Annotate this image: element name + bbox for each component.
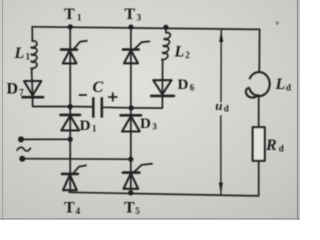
svg-text:5: 5 xyxy=(135,206,140,216)
svg-text:L: L xyxy=(14,45,25,62)
svg-text:3: 3 xyxy=(152,122,157,132)
inductor L1 xyxy=(31,41,37,69)
svg-text:L: L xyxy=(275,76,286,93)
wire L2 to D6 xyxy=(161,65,163,96)
label D3 xyxy=(140,116,157,132)
diode D6 xyxy=(151,80,174,96)
page border left xyxy=(2,0,4,220)
svg-text:D: D xyxy=(178,77,189,93)
diode D7 xyxy=(23,81,43,97)
label D6 xyxy=(178,77,195,93)
svg-text:D: D xyxy=(7,81,19,98)
inductor Ld xyxy=(246,72,270,98)
wire right side upper xyxy=(258,29,260,71)
junction node B xyxy=(129,105,134,110)
wire ac line 1 xyxy=(21,138,70,140)
junction L2 top xyxy=(163,25,168,30)
svg-text:T: T xyxy=(64,6,75,23)
svg-text:d: d xyxy=(279,144,284,154)
label T4 xyxy=(64,200,81,217)
junction node A xyxy=(68,104,73,109)
svg-text:u: u xyxy=(215,98,222,113)
svg-text:7: 7 xyxy=(19,88,24,98)
svg-text:1: 1 xyxy=(77,13,82,23)
wire D7 to node A xyxy=(33,97,71,106)
svg-text:d: d xyxy=(224,103,229,113)
thyristor T3 xyxy=(123,41,149,63)
capacitor C xyxy=(93,98,102,116)
svg-text:3: 3 xyxy=(137,13,142,23)
svg-text:6: 6 xyxy=(190,83,195,93)
junction T5 top xyxy=(128,157,133,162)
label Rd xyxy=(265,137,284,154)
label D7 xyxy=(7,81,25,98)
wire branch a vertical (T1 D1 T4) xyxy=(69,27,71,192)
label Ld xyxy=(275,76,292,93)
wire node A to capacitor xyxy=(70,106,93,108)
svg-text:L: L xyxy=(174,44,185,61)
label L1 xyxy=(14,45,31,62)
svg-text:D: D xyxy=(80,118,91,134)
svg-text:C: C xyxy=(93,79,104,96)
wire top rail xyxy=(32,27,259,30)
wire L1 to D7 xyxy=(31,70,34,97)
junction T1 top xyxy=(68,24,73,29)
svg-text:2: 2 xyxy=(185,50,190,60)
svg-text:d: d xyxy=(286,82,291,92)
wire D6 to node B xyxy=(131,96,162,108)
svg-text:T: T xyxy=(124,6,135,23)
capacitor minus sign xyxy=(80,94,87,96)
label T5 xyxy=(124,200,140,217)
thyristor T5 xyxy=(123,164,152,189)
svg-text:4: 4 xyxy=(76,206,81,216)
svg-text:D: D xyxy=(140,116,151,132)
voltage arrow ud line upper xyxy=(220,30,222,102)
label ud xyxy=(215,98,229,114)
label D1 xyxy=(80,118,97,134)
page border right xyxy=(297,0,299,220)
wire ac line 2 xyxy=(22,158,131,161)
svg-text:R: R xyxy=(265,137,277,154)
junction D1 bottom xyxy=(68,137,73,142)
capacitor plus sign xyxy=(109,93,117,101)
voltage arrow ud head up xyxy=(219,30,223,42)
thyristor T4 xyxy=(62,165,86,190)
wire bottom rail xyxy=(69,192,258,196)
wire right side lower xyxy=(258,161,260,196)
resistor Rd xyxy=(253,127,265,161)
thyristor T1 xyxy=(61,41,87,64)
page border bottom xyxy=(0,218,300,220)
wire capacitor to node B xyxy=(102,106,131,109)
voltage arrow ud line lower xyxy=(220,116,222,194)
junction T5 bottom xyxy=(128,190,133,195)
junction T3 top xyxy=(128,25,133,30)
svg-text:1: 1 xyxy=(26,52,31,62)
wire right side middle xyxy=(258,96,260,127)
svg-text:1: 1 xyxy=(92,124,97,134)
ac tilde xyxy=(17,147,30,151)
wire left branch top xyxy=(31,27,33,41)
diode D3 xyxy=(121,115,141,131)
label T1 xyxy=(64,6,82,23)
ac source terminal 1 xyxy=(18,136,24,142)
svg-text:T: T xyxy=(64,200,75,217)
label L2 xyxy=(174,44,191,61)
ac source terminal 2 xyxy=(19,156,25,162)
scan smudge top right xyxy=(276,21,279,24)
wire branch b vertical (T3 D3 T5) xyxy=(130,27,132,193)
inductor L2 xyxy=(162,27,171,64)
voltage arrow ud head down xyxy=(219,183,223,195)
svg-text:T: T xyxy=(124,200,135,217)
label T3 xyxy=(124,6,141,23)
diode D1 xyxy=(60,115,80,130)
